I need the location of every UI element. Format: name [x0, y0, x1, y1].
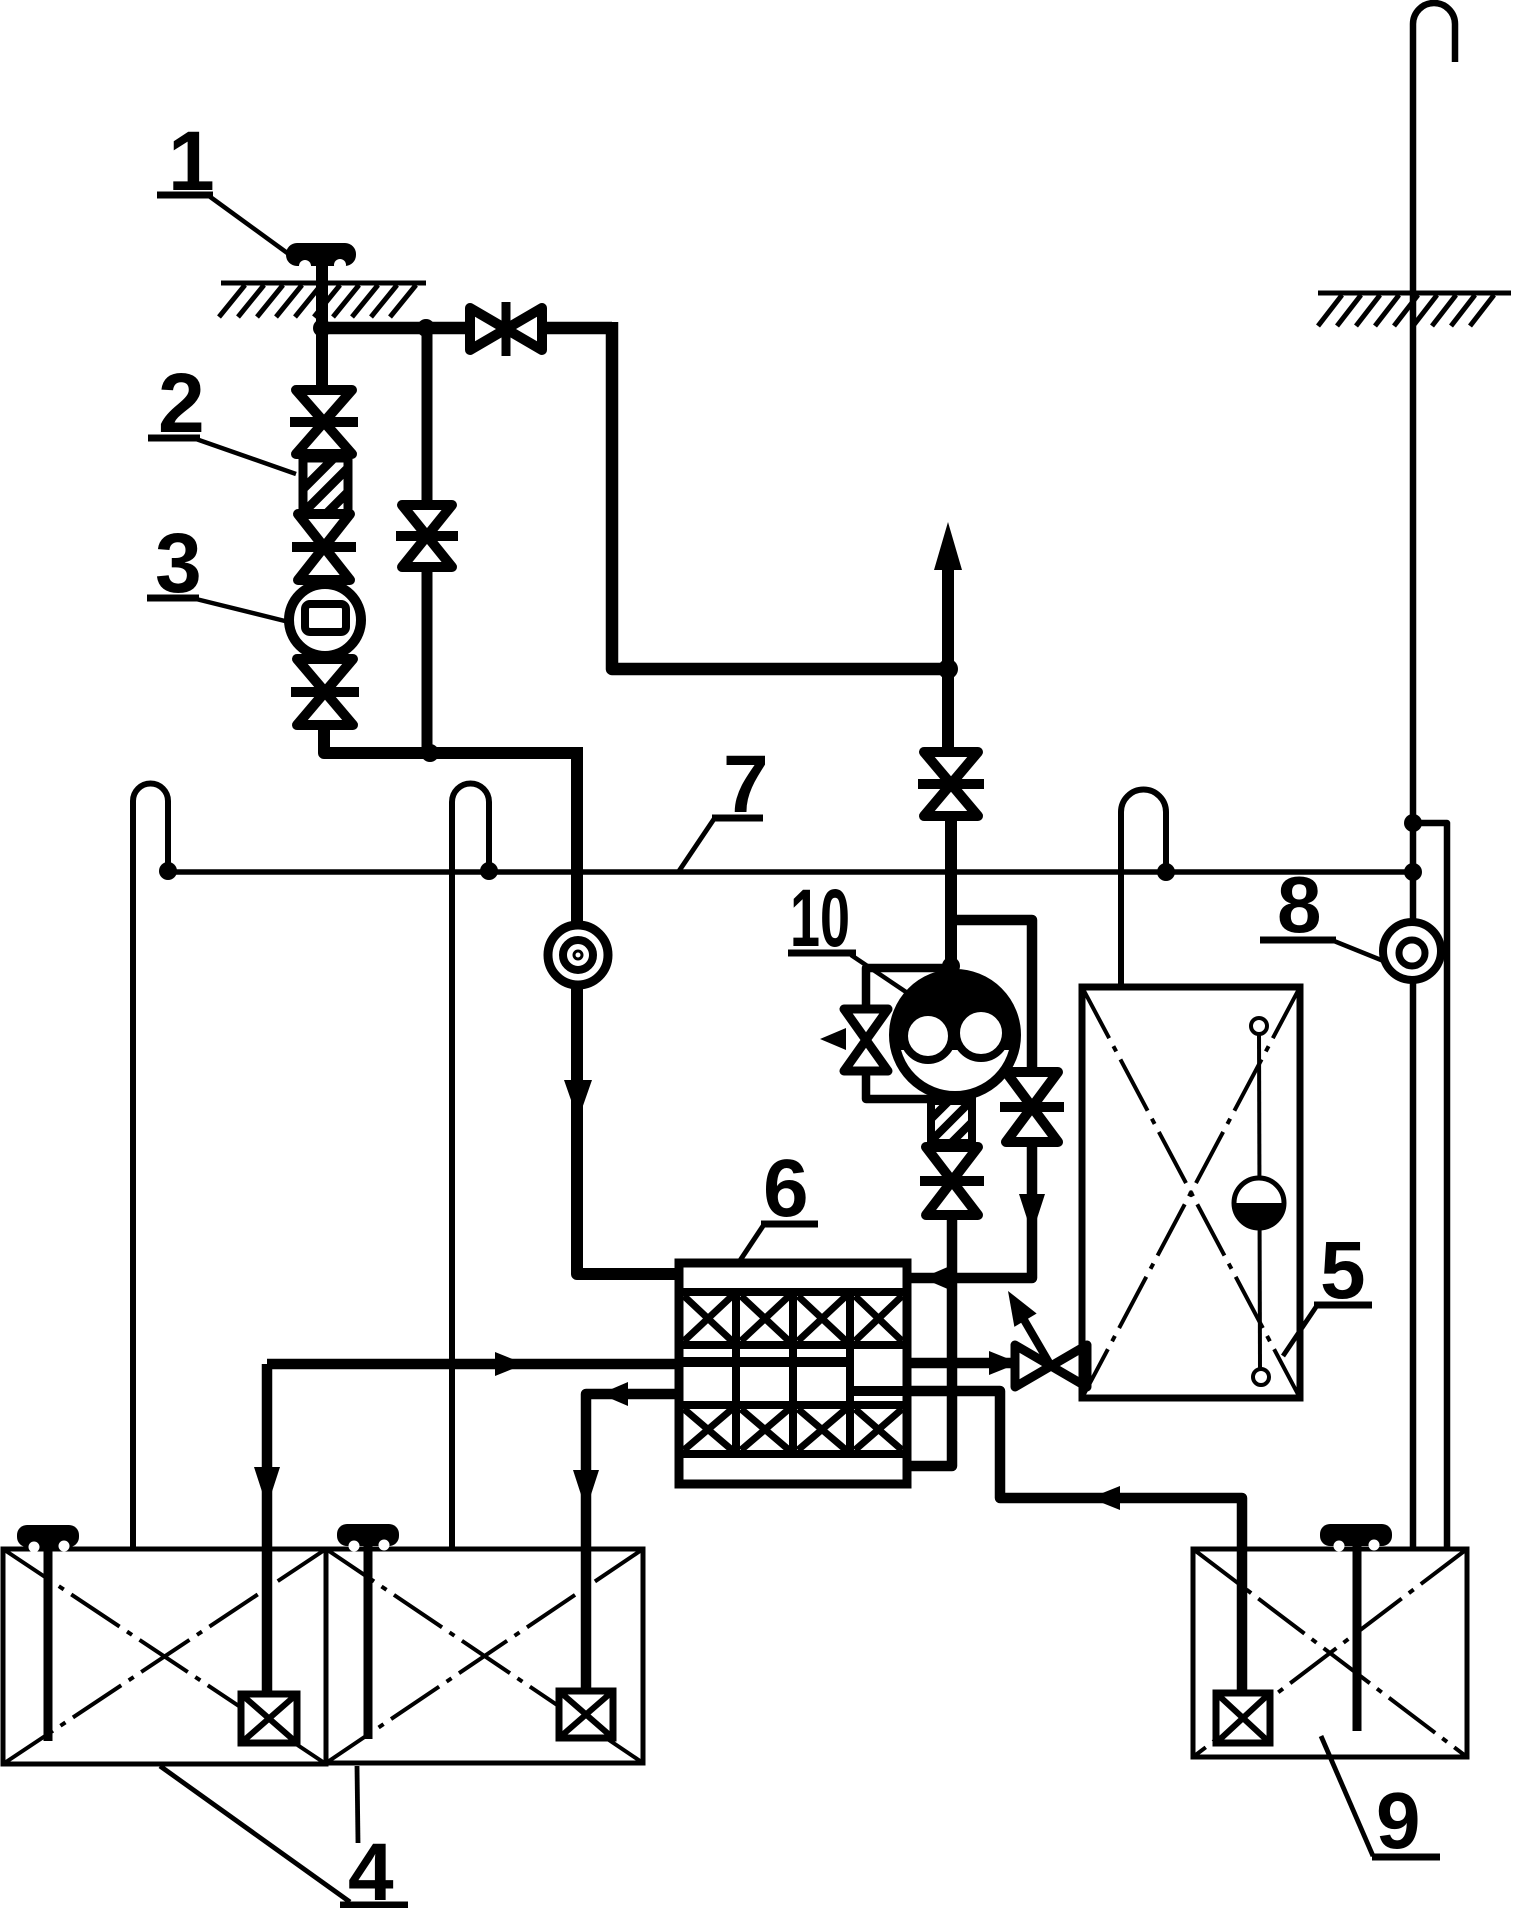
pump bypass loop — [866, 968, 951, 1008]
flow arrow down on drop pipe — [564, 1080, 592, 1120]
svg-text:8: 8 — [1277, 860, 1322, 949]
suction strainer tank4 right — [559, 1691, 613, 1738]
float tap tank4 right — [337, 1524, 399, 1739]
float tap tank4 left — [17, 1525, 79, 1741]
node loop right — [1157, 863, 1175, 881]
main supply pipe — [322, 322, 612, 335]
arrow left into exchanger top — [922, 1266, 950, 1290]
exchanger X cells row 2 — [684, 1409, 902, 1450]
flow indicator on drop pipe — [548, 925, 608, 985]
label 2 — [148, 356, 296, 474]
expansion loop mid riser — [452, 784, 489, 1550]
feed pipe into exchanger middle left — [267, 1359, 679, 1370]
pump right branch pipe — [951, 920, 1032, 1071]
node pump inlet — [942, 957, 960, 975]
circulation pipe tank 9 to exchanger — [907, 1391, 1242, 1693]
riser pipe from tap — [316, 262, 328, 398]
label 5 — [1283, 1225, 1372, 1356]
exchanger inner horizontals — [681, 1292, 905, 1454]
valve 2a upper — [290, 390, 358, 454]
tee branch pipe — [1413, 823, 1447, 1549]
vent pipe with up arrow — [942, 555, 954, 751]
control valve handle with arrow — [1016, 1306, 1051, 1366]
valve 2c below meter — [291, 659, 359, 725]
arrow down on right branch — [1019, 1194, 1045, 1234]
svg-text:4: 4 — [348, 1827, 394, 1908]
node riser line7 — [1404, 863, 1422, 881]
cold water drop pipe to exchanger — [577, 747, 679, 1274]
node loop left — [159, 862, 177, 880]
float gauge in tank 5 — [1234, 1018, 1284, 1385]
gauge 8 on riser — [1383, 922, 1441, 980]
filter 2 — [303, 458, 348, 514]
gate valve on supply main — [470, 302, 542, 356]
tank 4 left cell — [3, 1549, 326, 1764]
suction strainer tank4 left — [241, 1694, 297, 1743]
float tap tank9 — [1320, 1524, 1392, 1731]
standpipe tap 1 — [286, 243, 356, 272]
label 6 — [739, 1143, 818, 1262]
valve below pump — [920, 1147, 984, 1215]
ground hatching right — [1318, 293, 1511, 326]
relief valve arrow — [820, 1028, 846, 1050]
pump suction pipe — [945, 814, 957, 975]
exchanger tube row dividers — [736, 1292, 850, 1454]
node at bypass tee — [417, 319, 435, 337]
feed drop into tank 4 left — [262, 1364, 273, 1693]
bypass riser — [422, 328, 433, 753]
arrow left on circulation pipe — [1090, 1486, 1120, 1510]
label 9 — [1321, 1736, 1440, 1865]
node vent tee — [938, 659, 958, 679]
distribution line 7 — [168, 869, 1414, 875]
exchanger X cells row 1 — [684, 1296, 902, 1341]
label 7 — [679, 739, 769, 871]
valve above pump — [918, 752, 984, 816]
label 10 — [788, 873, 912, 996]
exchanger internal pipe segments — [683, 1357, 851, 1367]
heat exchanger 6 shell — [679, 1263, 907, 1484]
ground hatching left — [219, 283, 426, 317]
pump discharge pipe to exchanger bottom — [907, 1213, 952, 1466]
pump 10 — [894, 974, 1016, 1096]
water meter 3 — [289, 584, 361, 656]
node riser tee — [1404, 814, 1422, 832]
supply drop pipe right — [612, 322, 948, 669]
valve on right branch — [1000, 1072, 1064, 1142]
pump discharge strainer — [931, 1101, 972, 1143]
label 1 — [157, 114, 290, 255]
right riser with vent hook — [1413, 3, 1455, 1549]
control valve at tank 5 — [1015, 1345, 1087, 1387]
label 8 — [1260, 860, 1386, 962]
node loop mid — [480, 862, 498, 880]
label 4 — [160, 1766, 408, 1908]
right branch down to exchanger top — [907, 1140, 1032, 1278]
bypass relief valve — [844, 1009, 888, 1071]
arrow right on feed pipe — [495, 1352, 525, 1376]
pipe elbow meter to cold drop — [324, 722, 577, 753]
tank 9 — [1193, 1549, 1467, 1757]
suction strainer tank9 — [1216, 1693, 1270, 1743]
expansion loop right riser — [1121, 790, 1166, 988]
return pipe from exchanger to tank 4 right — [586, 1394, 679, 1693]
label 3 — [147, 516, 293, 623]
expansion loop left riser — [133, 784, 168, 1550]
svg-text:6: 6 — [763, 1143, 809, 1234]
valve 2b below filter — [292, 514, 356, 580]
svg-text:9: 9 — [1376, 1776, 1421, 1865]
bypass valve — [396, 505, 458, 567]
tank 4 right cell — [326, 1549, 643, 1763]
node at tap riser — [313, 319, 331, 337]
hot outlet pipe exchanger to tank 5 — [907, 1358, 1017, 1369]
arrow right on hot outlet — [989, 1351, 1019, 1375]
tank 5 — [1082, 987, 1300, 1398]
node bypass bottom — [421, 744, 439, 762]
